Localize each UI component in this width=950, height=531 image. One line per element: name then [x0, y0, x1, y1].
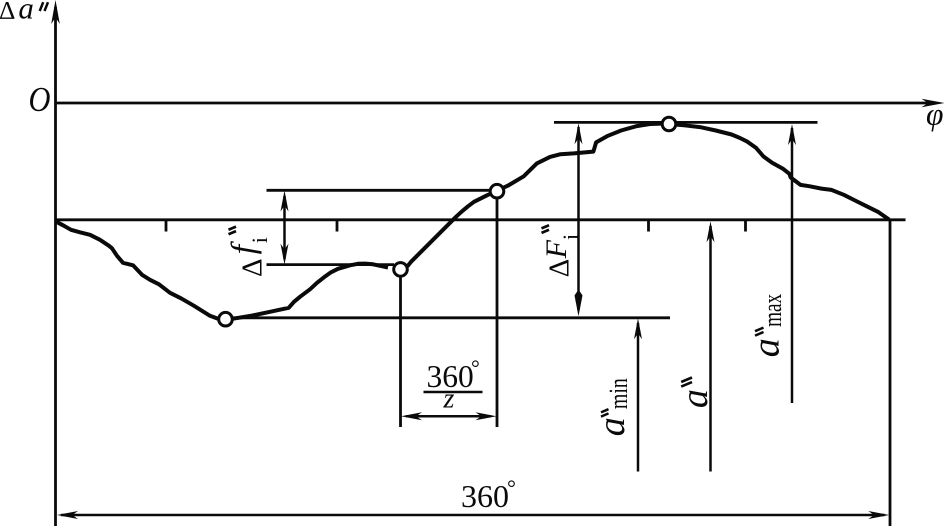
label delta-F-i: subscript i	[558, 234, 583, 240]
label a-max: double prime	[755, 328, 764, 336]
svg-text:360: 360	[461, 478, 509, 514]
label a-max: subscript max	[758, 294, 787, 327]
tick 1	[165, 220, 168, 232]
label a (rotated): a	[674, 389, 716, 408]
label a-min (rotated): a	[591, 417, 633, 436]
tick 3	[647, 220, 650, 232]
a-max arrow (vertical, up)	[788, 124, 796, 403]
label delta-F-i: double prime	[542, 225, 550, 233]
svg-text:Δ: Δ	[543, 259, 575, 278]
extension line from circle 2 down	[399, 277, 402, 427]
svg-text:Δ: Δ	[0, 0, 15, 25]
label a-min: subscript min	[604, 378, 633, 409]
phi-axis (horizontal axis line at O level)	[56, 102, 935, 105]
max (peak) level line	[554, 121, 818, 124]
double prime of delta-a label	[40, 2, 48, 11]
svg-text:z: z	[443, 384, 455, 415]
svg-text:F: F	[540, 239, 573, 259]
node circle 3	[490, 184, 504, 198]
svg-text:i: i	[558, 234, 583, 240]
label a-max (rotated): a	[746, 338, 788, 357]
node circle 1 (minimum)	[219, 312, 233, 326]
phi-axis arrowhead	[922, 99, 945, 108]
label delta-f-i: subscript i	[247, 237, 272, 243]
svg-text:min: min	[604, 378, 633, 409]
svg-text:max: max	[758, 294, 787, 327]
svg-text:°: °	[471, 355, 480, 380]
a-min arrow (vertical, up)	[634, 318, 642, 471]
svg-text:Δ: Δ	[236, 258, 268, 277]
zero reference line	[56, 218, 906, 221]
svg-text:O: O	[29, 80, 51, 119]
svg-text:a: a	[591, 417, 633, 436]
upper delta-f line	[267, 189, 492, 192]
label a-min: double prime	[601, 409, 609, 416]
tick 2	[336, 220, 339, 232]
360 degree bottom dimension line	[57, 511, 889, 519]
label delta-f-i: f	[225, 240, 262, 254]
label delta-f-i (rotated): delta	[236, 258, 268, 277]
360/z dimension double arrow	[401, 412, 497, 420]
svg-text:a: a	[674, 389, 716, 408]
right boundary line	[889, 220, 892, 526]
delta-f dimension double arrow	[281, 191, 289, 265]
fraction bar	[424, 391, 483, 394]
label delta-F-i: F	[540, 239, 573, 259]
label delta-F-i (rotated): delta	[543, 259, 575, 278]
node circle 4 (peak)	[662, 117, 676, 131]
svg-text:φ: φ	[926, 97, 943, 132]
label delta-f-i: double prime	[229, 227, 237, 235]
min level line	[232, 316, 670, 319]
label a: double prime	[681, 378, 692, 387]
y-axis (vertical axis, extends down as left boundary)	[54, 7, 57, 526]
y-axis arrowhead	[51, 0, 60, 24]
delta-F dimension double arrow	[575, 123, 583, 316]
a arrow (vertical, up)	[707, 221, 715, 471]
lower delta-f line	[267, 263, 395, 266]
extension line from circle 3 down	[496, 199, 499, 427]
svg-text:a: a	[746, 338, 788, 357]
svg-text:a: a	[18, 0, 34, 26]
tick 4	[744, 220, 747, 232]
svg-text:°: °	[507, 475, 516, 500]
measured curve	[56, 124, 890, 320]
svg-text:i: i	[247, 237, 272, 243]
node circle 2	[394, 263, 408, 277]
